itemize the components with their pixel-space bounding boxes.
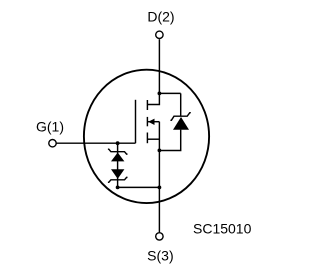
svg-text:G(1): G(1) — [36, 119, 64, 135]
svg-text:S(3): S(3) — [147, 247, 173, 263]
svg-text:SC15010: SC15010 — [193, 221, 252, 237]
svg-text:D(2): D(2) — [147, 9, 174, 25]
